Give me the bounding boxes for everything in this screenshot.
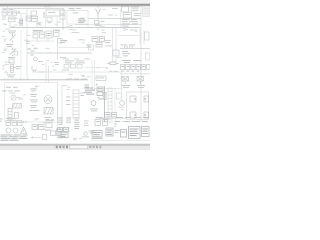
fuse F1: [2, 11, 6, 15]
sensor B1 cluster: [9, 59, 16, 73]
resistor R1 vertical: [20, 19, 23, 25]
connector row bottom-left C115: [6, 118, 27, 126]
wire H11: [95, 88, 123, 90]
text label: [7, 66, 21, 77]
relay K6 inside: [130, 96, 136, 102]
text under bus left: [33, 29, 60, 32]
wire W4 vertical trunk: [62, 9, 64, 30]
text block far right rows: [122, 19, 139, 27]
wire H9b: [85, 67, 108, 69]
fuse F2: [7, 11, 11, 15]
wire bus far right H4: [118, 35, 140, 37]
lamp L6: [34, 57, 38, 61]
wire W10: [116, 57, 122, 59]
relay K3 row: [33, 30, 45, 38]
lamp L5: [13, 128, 18, 133]
lamp L1 cluster: [95, 21, 105, 26]
wire W7: [27, 38, 54, 41]
text marks upper right of cluster: [84, 121, 89, 126]
text labels: [105, 40, 112, 46]
connector C107: [146, 53, 151, 60]
relay K8 (dark): [92, 131, 102, 139]
junction block dark cluster bottom center: [58, 128, 69, 138]
connector C117: [46, 121, 52, 128]
switch S2: [54, 30, 60, 37]
wire bus H2: [75, 24, 141, 26]
lamp L2: [91, 101, 96, 106]
connector C101: [2, 9, 15, 22]
text label: [8, 41, 30, 58]
connector C123: [43, 135, 47, 140]
switch S3 symbol: [10, 34, 16, 43]
connector C104 top far right: [122, 6, 140, 12]
wire W2: [10, 19, 37, 28]
wire vertical trunk W6: [20, 30, 22, 80]
text column rows mid-left: [30, 89, 40, 111]
text label left col: [8, 31, 16, 34]
connector C114: [144, 112, 149, 118]
connector C113: [144, 96, 149, 102]
text label: [90, 109, 98, 112]
text labels under solenoids: [122, 85, 145, 88]
relay K2: [124, 13, 142, 19]
wire stem A1 to H2: [97, 19, 99, 25]
text label under R3: [45, 117, 51, 120]
relay K7 inside: [130, 112, 136, 118]
node label text TOP: [69, 8, 82, 11]
text label right of antenna: [112, 7, 118, 10]
tick from toolbar: [7, 6, 9, 9]
wire verticals W11: [46, 62, 49, 82]
text dashes row lower: [63, 58, 90, 61]
terminal strip X1 rows: [65, 61, 85, 64]
terminal strip X4 ladder: [108, 88, 112, 122]
text label: [64, 40, 68, 43]
resistor R2 hatched box: [13, 104, 22, 109]
fuse F3 horizontal: [107, 62, 119, 65]
module U1 box: [67, 11, 88, 25]
text rows center bottom: [58, 118, 80, 129]
wire verticals W12: [92, 60, 95, 90]
diode D2: [5, 71, 9, 73]
text small left: [2, 35, 5, 38]
wire W3a: [46, 16, 58, 28]
text label: [6, 44, 13, 47]
solenoid Y2: [137, 77, 144, 85]
resistor R3 hatched: [44, 108, 53, 115]
switch S4 symbol: [10, 48, 16, 57]
wire W13 vertical: [58, 85, 63, 125]
connector C102: [26, 16, 32, 21]
wire W16 vertical: [121, 74, 123, 92]
terminal strip X3 column of cells: [73, 90, 79, 118]
capacitor C1 vertical: [103, 93, 106, 100]
solenoid Y1: [122, 77, 129, 85]
junction dots row: [124, 46, 133, 47]
text in U2 area: [60, 40, 91, 47]
wire H13: [96, 118, 126, 120]
text marks: [122, 51, 130, 56]
text row bottom-left top: [2, 87, 20, 92]
relay K4: [46, 31, 52, 38]
connector C111: [15, 113, 19, 119]
left edge ticks: [0, 119, 3, 122]
text row: [121, 44, 136, 47]
wire bus mid horizontal long: [10, 27, 140, 29]
text label: [18, 98, 23, 101]
wire W17: [87, 24, 89, 28]
buzzer HN1 triangle: [21, 127, 27, 134]
text: [45, 129, 52, 132]
connector C106 tall right edge: [145, 32, 150, 40]
wire bus H15: [58, 47, 93, 49]
node legend panel top right: [143, 6, 150, 16]
wire vertical trunk W5: [26, 9, 28, 80]
wire verticals W14 bus: [104, 86, 106, 122]
text label: [38, 71, 45, 74]
junction marks: [31, 51, 35, 56]
connector C125: [117, 93, 122, 99]
text label: [60, 56, 66, 59]
connector C105: [113, 50, 119, 56]
connector C121 (dark): [142, 127, 150, 137]
wire bus H5: [120, 48, 150, 50]
wire bus H6 with terminal ticks: [0, 79, 88, 81]
module U4 big box far right: [127, 92, 149, 120]
connector X2 vertical strip: [8, 109, 12, 121]
motor M2: [44, 96, 52, 104]
text inside U1: [73, 13, 87, 24]
connector cluster C118: [51, 129, 62, 136]
connector C126: [89, 45, 94, 50]
lamp L3: [120, 101, 125, 106]
text marks upper: [38, 61, 59, 65]
fuse F4: [12, 11, 16, 15]
module U3 big box: [5, 83, 58, 123]
text dashes row: [66, 78, 87, 81]
junction block text (dark cluster): [84, 88, 95, 95]
connector pair C119: [95, 117, 108, 126]
diode D1: [43, 13, 45, 18]
ground G3 small marks: [2, 66, 5, 70]
text row far right: [122, 60, 141, 63]
wire top frame bus: [2, 8, 64, 10]
wire bus H9: [32, 71, 122, 73]
relay K9 (dark): [106, 128, 113, 136]
wire H12: [120, 73, 150, 75]
connector C124: [14, 52, 18, 56]
relay K5 cluster right-center: [92, 37, 105, 48]
connector C120 (dark): [121, 130, 127, 138]
wire W1: [17, 14, 28, 20]
node J1 dot: [96, 84, 98, 86]
ground G1: [4, 39, 7, 41]
connector row C110 (dark): [121, 65, 151, 70]
relay K1: [31, 11, 38, 21]
lamp L7: [84, 132, 87, 135]
wire arrow W15: [31, 137, 42, 139]
connector cluster C112: [100, 113, 117, 120]
gauge P1: [11, 95, 21, 100]
nav buttons in status bar: [56, 145, 102, 148]
wire W8 vertical: [57, 44, 59, 60]
wire W9 vertical pair: [113, 28, 117, 62]
connector C122: [58, 39, 63, 44]
bottom status bar: [0, 143, 150, 146]
note text block (footer paragraph): [1, 135, 28, 141]
connector row C108: [64, 65, 82, 69]
relay K10 dark pair: [97, 87, 103, 96]
text right of relays: [115, 130, 120, 133]
text marks: [82, 131, 95, 138]
wire W18 vertical: [120, 9, 122, 28]
connector pins inside U1: [80, 18, 84, 22]
wire label micro-text layer: [2, 9, 137, 140]
wire H14 bottom: [90, 140, 150, 142]
ground G2 hatch: [32, 66, 37, 71]
antenna A1 (V symbol): [96, 6, 101, 19]
connector C103: [60, 10, 65, 14]
module U5 (dark): [129, 127, 141, 139]
text rows bottom far right: [115, 117, 150, 122]
wire verticals far right: [140, 28, 144, 44]
connector C109: [96, 76, 106, 81]
wire right margin vertical: [140, 9, 142, 123]
connector pair C116: [32, 125, 44, 130]
text above: [130, 29, 137, 32]
connector C103b: [60, 15, 65, 19]
junction cluster: [84, 85, 89, 88]
lamp L4: [6, 128, 11, 133]
wire bus H1: [88, 18, 141, 20]
switch S1: [46, 10, 60, 22]
wire bus H3: [27, 52, 92, 54]
text label: [62, 69, 69, 72]
text above frame: [44, 5, 51, 8]
